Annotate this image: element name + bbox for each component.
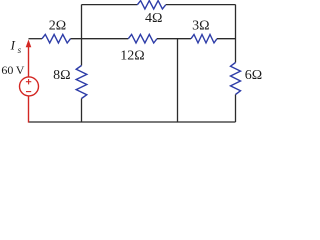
wire bottom	[29, 121, 236, 123]
voltage source V1 60V	[20, 77, 39, 96]
current arrow Is	[26, 40, 32, 78]
svg-text:12Ω: 12Ω	[120, 48, 144, 63]
wire top-left segment	[82, 4, 138, 6]
svg-text:s: s	[18, 45, 22, 55]
resistor R6 6ohm	[231, 63, 241, 95]
wire right vertical upper (top wire to 6ohm, crosses middle wire)	[235, 5, 237, 63]
svg-text:6Ω: 6Ω	[245, 68, 262, 83]
wire right vertical lower (6ohm to bottom wire)	[235, 95, 237, 123]
wire left vertical upper (top wire to 8ohm, crosses middle wire)	[81, 5, 83, 66]
svg-text:60 V: 60 V	[1, 63, 24, 77]
resistor R3 3ohm	[191, 35, 217, 43]
resistor R12 12ohm	[128, 34, 157, 43]
wire middle segment c (R12 to R3, crosses middle vertical)	[157, 38, 191, 40]
wire middle segment a (source to R2)	[29, 38, 43, 40]
svg-text:3Ω: 3Ω	[192, 18, 209, 33]
wire middle segment b (R2 to R12, crosses left vertical)	[71, 38, 129, 40]
wire top-right segment	[166, 4, 236, 6]
svg-text:2Ω: 2Ω	[49, 18, 66, 33]
wire source to bottom (red)	[28, 96, 30, 123]
wire middle vertical (junction to bottom wire)	[177, 39, 179, 122]
wire left vertical lower (8ohm to bottom wire)	[81, 99, 83, 123]
resistor R4 4ohm	[137, 1, 165, 9]
svg-text:4Ω: 4Ω	[145, 11, 162, 26]
resistor R8 8ohm	[76, 66, 87, 99]
wire middle segment d (R3 to right vertical)	[217, 38, 236, 40]
svg-text:I: I	[10, 38, 16, 53]
svg-text:8Ω: 8Ω	[53, 68, 70, 83]
resistor R2 2ohm	[42, 34, 71, 43]
